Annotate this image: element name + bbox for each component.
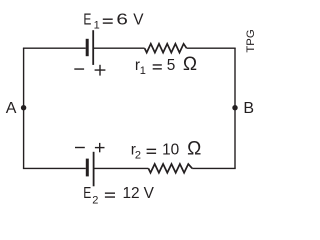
svg-text:Ω: Ω bbox=[187, 138, 201, 159]
wire right vertical B-side bbox=[234, 48, 236, 168]
node B junction dot bbox=[232, 105, 237, 110]
wire bottom middle segment bbox=[94, 167, 149, 169]
svg-text:10: 10 bbox=[162, 141, 179, 158]
svg-text:1: 1 bbox=[140, 65, 146, 77]
battery E2 plus sign bbox=[95, 147, 105, 149]
battery E1 positive plate (long thin) bbox=[92, 30, 94, 65]
battery E1 negative plate (short thick) bbox=[86, 39, 89, 56]
svg-text:1: 1 bbox=[94, 20, 100, 32]
battery E2 negative plate (short thick) bbox=[86, 159, 89, 177]
wire bottom right segment bbox=[192, 167, 236, 169]
svg-text:5: 5 bbox=[167, 57, 176, 74]
node A junction dot bbox=[21, 105, 26, 110]
svg-text:V: V bbox=[144, 185, 155, 202]
battery E2 positive plate (long thin) bbox=[93, 152, 95, 187]
svg-text:6: 6 bbox=[116, 11, 128, 28]
wire top middle segment bbox=[93, 47, 144, 49]
battery E2 minus sign bbox=[75, 147, 85, 149]
battery E1 plus sign bbox=[95, 69, 106, 71]
label E2 equals sign bbox=[105, 192, 115, 193]
svg-text:Ω: Ω bbox=[183, 54, 197, 75]
svg-text:TPG: TPG bbox=[245, 29, 257, 52]
label E1 equals sign bbox=[103, 19, 113, 20]
svg-text:B: B bbox=[243, 100, 254, 117]
svg-text:12: 12 bbox=[123, 185, 140, 202]
resistor r2 bbox=[148, 164, 192, 173]
svg-text:E: E bbox=[83, 185, 91, 202]
resistor r1 bbox=[145, 44, 187, 53]
battery E1 minus sign bbox=[74, 68, 84, 70]
label r2 equals sign bbox=[147, 149, 157, 150]
wire top right segment bbox=[187, 47, 236, 49]
svg-text:2: 2 bbox=[135, 149, 141, 161]
label r1 equals sign bbox=[153, 64, 162, 65]
svg-text:2: 2 bbox=[92, 194, 98, 206]
wire top left segment bbox=[23, 47, 86, 49]
wire bottom left segment bbox=[23, 167, 86, 169]
svg-text:V: V bbox=[133, 11, 144, 28]
svg-text:A: A bbox=[6, 100, 17, 117]
wire left vertical A-side bbox=[23, 48, 25, 168]
svg-text:E: E bbox=[83, 11, 91, 28]
